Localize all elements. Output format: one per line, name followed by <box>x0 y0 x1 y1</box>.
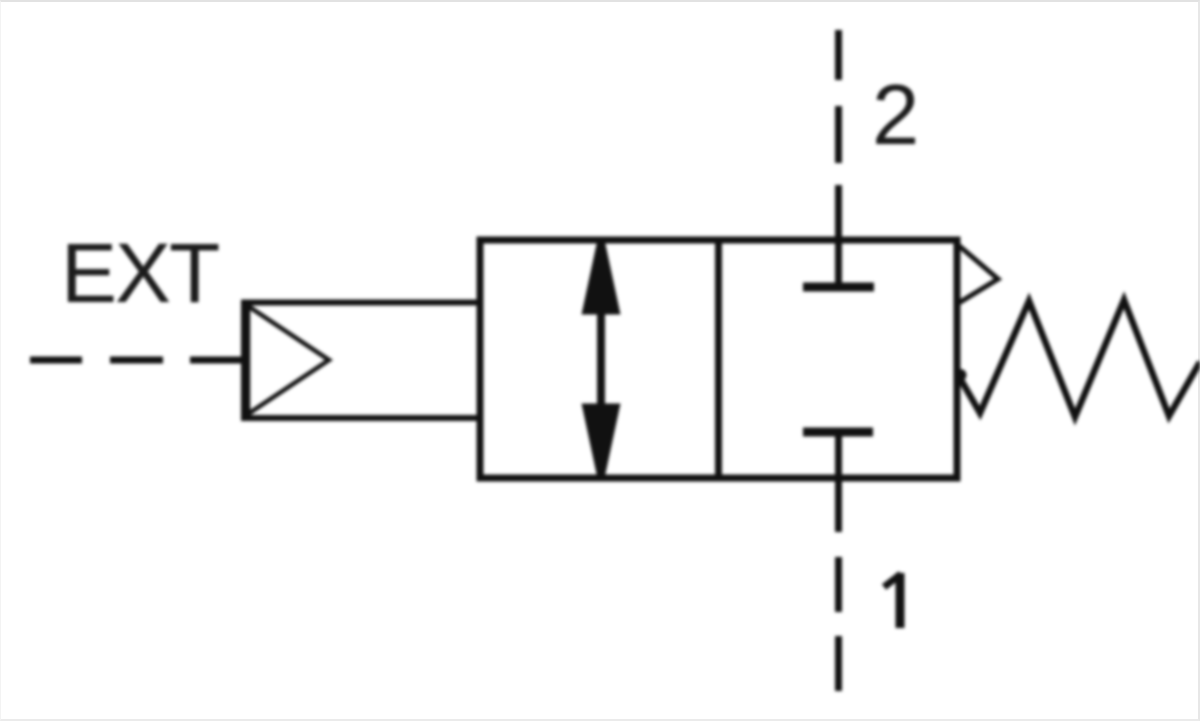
return spring <box>957 300 1200 417</box>
spring attachment nub <box>955 369 967 381</box>
wire: port 2 line (dashed above, solid into body) <box>835 30 842 287</box>
wire: port 1 line (solid out of body, dashed below) <box>835 432 842 691</box>
flow-position double arrow (left square) <box>582 242 621 476</box>
pilot actuator triangle <box>248 306 329 414</box>
blocked port 1 symbol (T crossbar) <box>803 428 873 437</box>
svg-text:2: 2 <box>872 68 919 163</box>
pilot actuator box (external pilot source) <box>244 303 480 419</box>
valve body envelope <box>480 240 957 478</box>
svg-text:EXT: EXT <box>61 226 219 320</box>
blocked port 2 symbol (T crossbar) <box>803 283 874 292</box>
pilot vent triangle (right, open) <box>957 244 998 304</box>
node label 1 <box>884 573 901 628</box>
valve body center divider <box>715 240 722 478</box>
wire: external pilot dashed line EXT <box>30 357 244 364</box>
